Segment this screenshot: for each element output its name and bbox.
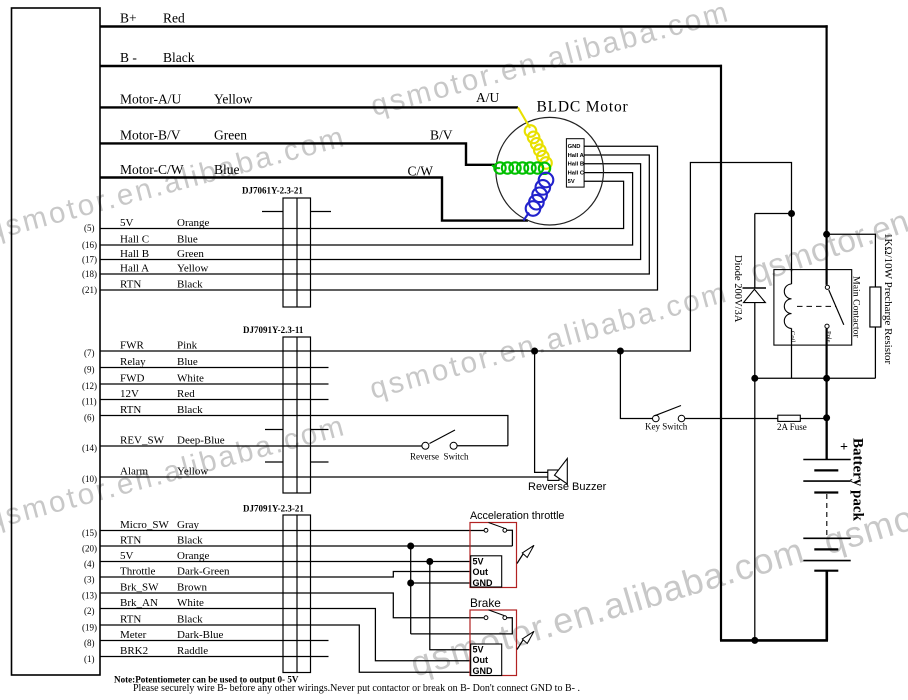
svg-text:DJ7061Y-2.3-21: DJ7061Y-2.3-21 <box>242 186 303 196</box>
svg-text:Brk_AN: Brk_AN <box>120 597 158 609</box>
group1 signal labels <box>120 217 209 291</box>
wire FWR <box>100 163 792 352</box>
wire RTN6 <box>100 416 508 446</box>
svg-text:Black: Black <box>177 535 203 547</box>
svg-text:5V: 5V <box>473 645 484 655</box>
group1 pin numbers <box>82 223 97 295</box>
svg-text:Hall A: Hall A <box>120 263 149 275</box>
svg-text:Black: Black <box>177 279 203 291</box>
connector DJ7061Y-2.3-21 <box>262 198 331 307</box>
wire Micro_SW <box>100 530 484 532</box>
junction contactor output node <box>823 375 830 382</box>
svg-text:(21): (21) <box>82 285 97 295</box>
svg-text:(9): (9) <box>84 365 95 375</box>
svg-text:Out: Out <box>473 655 489 665</box>
svg-text:GND: GND <box>473 666 494 676</box>
svg-text:Yellow: Yellow <box>177 263 208 275</box>
svg-text:Blue: Blue <box>177 356 198 368</box>
junction fuse to battery node <box>823 414 830 421</box>
key switch <box>653 415 685 422</box>
svg-text:Battery pack: Battery pack <box>850 438 866 522</box>
svg-text:Relay: Relay <box>120 356 146 368</box>
svg-text:5V: 5V <box>568 179 575 185</box>
svg-text:(4): (4) <box>84 559 95 569</box>
svg-text:Coil: Coil <box>789 331 796 342</box>
svg-text:Brk_SW: Brk_SW <box>120 582 159 594</box>
wire key switch to fuse <box>685 418 778 420</box>
svg-text:DJ7091Y-2.3-11: DJ7091Y-2.3-11 <box>243 325 304 335</box>
wire throttle switch return <box>507 530 513 546</box>
reverse switch <box>422 442 457 449</box>
svg-text:Black: Black <box>177 404 203 416</box>
watermark line 2 top-right <box>367 0 733 123</box>
svg-text:(5): (5) <box>84 223 95 233</box>
wire key switch drop <box>620 351 652 419</box>
svg-text:(18): (18) <box>82 269 97 279</box>
wire RTN19 <box>100 625 471 672</box>
svg-text:2A Fuse: 2A Fuse <box>777 422 807 432</box>
left column labels big <box>120 11 253 178</box>
svg-text:Diode 200V/3A: Diode 200V/3A <box>732 255 743 323</box>
watermark line 1 top <box>0 120 350 248</box>
svg-text:RTN: RTN <box>120 279 141 291</box>
junction B- bottom node <box>751 637 758 644</box>
svg-text:Hall B: Hall B <box>120 248 149 260</box>
svg-text:White: White <box>177 597 204 609</box>
svg-text:(2): (2) <box>84 606 95 616</box>
connector DJ7091Y-2.3-11 <box>265 337 329 493</box>
svg-text:Dark-Blue: Dark-Blue <box>177 629 224 641</box>
svg-text:Out: Out <box>473 567 489 577</box>
svg-text:Motor-C/W: Motor-C/W <box>120 162 184 177</box>
wire Relay stub <box>100 367 329 369</box>
brake lever arrow <box>517 639 524 650</box>
phase coil yellow <box>518 107 552 168</box>
svg-text:B/V: B/V <box>430 128 453 143</box>
wire diode top link <box>755 213 792 215</box>
svg-text:(3): (3) <box>84 575 95 585</box>
wire Throttle to Out <box>100 572 471 578</box>
wire precharge top <box>827 234 876 287</box>
svg-text:(11): (11) <box>82 397 97 407</box>
junction 5V drop <box>426 558 433 565</box>
watermark line 4 mid-right <box>366 276 732 406</box>
hall sensor pin labels <box>568 144 585 185</box>
svg-text:GND: GND <box>473 578 494 588</box>
wire 5V drop to brake <box>430 562 471 650</box>
controller box <box>12 8 101 675</box>
svg-text:Alarm: Alarm <box>120 466 149 478</box>
hall sensor box <box>566 139 584 187</box>
svg-text:Blue: Blue <box>177 234 198 246</box>
wire contactor out <box>825 329 827 460</box>
svg-text:GND: GND <box>568 144 581 150</box>
svg-text:B -: B - <box>120 50 137 65</box>
svg-text:Yellow: Yellow <box>214 92 253 107</box>
junction FWR-buzzer <box>531 348 538 355</box>
junction RTN20 drop <box>407 543 414 550</box>
wire node row 378 <box>755 377 876 379</box>
svg-text:Pole: Pole <box>825 331 832 343</box>
wire Motor-B/V <box>100 143 496 164</box>
svg-text:Key Switch: Key Switch <box>645 422 688 432</box>
svg-text:Hall C: Hall C <box>120 234 149 246</box>
wire 12V stub <box>100 399 329 401</box>
svg-text:Black: Black <box>177 614 203 626</box>
wire Brk_SW <box>100 593 484 618</box>
svg-text:DJ7091Y-2.3-21: DJ7091Y-2.3-21 <box>243 504 304 514</box>
group3 signal labels <box>120 519 230 657</box>
junction diode bottom node <box>751 375 758 382</box>
svg-text:(12): (12) <box>82 381 97 391</box>
wire B+ vertical to contactor <box>825 25 827 285</box>
group3 pin numbers <box>82 528 97 664</box>
wire throttle GND <box>411 582 471 584</box>
svg-text:FWD: FWD <box>120 373 145 385</box>
wire FWD stub <box>100 383 329 385</box>
svg-text:(6): (6) <box>84 413 95 423</box>
svg-text:12V: 12V <box>120 388 139 400</box>
svg-text:Yellow: Yellow <box>177 466 208 478</box>
svg-text:Micro_SW: Micro_SW <box>120 519 170 531</box>
svg-text:(17): (17) <box>82 255 97 265</box>
wire Hall B loop <box>100 164 641 260</box>
svg-text:BLDC Motor: BLDC Motor <box>537 99 629 116</box>
watermark line 6 bottom large <box>406 407 908 685</box>
wire reverse switch return <box>457 445 508 447</box>
svg-text:A/U: A/U <box>476 90 500 105</box>
phase coil green <box>492 162 550 174</box>
svg-text:Red: Red <box>163 11 185 26</box>
svg-text:(7): (7) <box>84 348 95 358</box>
svg-text:(19): (19) <box>82 623 97 633</box>
group2 signal labels <box>120 340 225 478</box>
svg-text:C/W: C/W <box>408 164 434 179</box>
wire 5V3 <box>100 561 471 563</box>
wire RTN20 drop <box>410 546 412 634</box>
wire buzzer drop from FWR <box>535 351 548 472</box>
svg-text:Hall B: Hall B <box>568 162 584 168</box>
svg-text:Reverse Buzzer: Reverse Buzzer <box>528 481 607 493</box>
svg-text:Hall C: Hall C <box>568 171 585 177</box>
svg-text:Meter: Meter <box>120 629 147 641</box>
svg-text:BRK2: BRK2 <box>120 645 148 657</box>
diode D1 <box>743 287 767 289</box>
svg-text:(20): (20) <box>82 544 97 554</box>
watermark line 3 mid-left <box>0 409 350 537</box>
svg-text:B+: B+ <box>120 11 137 26</box>
wire B+ <box>100 25 828 27</box>
wire precharge bottom <box>874 327 876 378</box>
svg-text:RTN: RTN <box>120 404 141 416</box>
svg-text:(1): (1) <box>84 654 95 664</box>
wire brake switch return <box>411 618 513 634</box>
svg-text:Brown: Brown <box>177 582 207 594</box>
svg-text:Please securely wire B- before: Please securely wire B- before any other… <box>133 683 580 694</box>
svg-text:Acceleration throttle: Acceleration throttle <box>470 510 564 522</box>
wire fuse to B+ <box>800 418 826 420</box>
wire Meter stub <box>100 640 329 642</box>
svg-text:(10): (10) <box>82 474 97 484</box>
svg-text:RTN: RTN <box>120 535 141 547</box>
junction throttle GND tap <box>407 580 414 587</box>
wire REV_SW <box>100 445 422 447</box>
svg-text:White: White <box>177 373 204 385</box>
wire Alarm to buzzer <box>100 476 548 478</box>
svg-text:Reverse Switch: Reverse Switch <box>410 452 469 462</box>
svg-text:Red: Red <box>177 388 195 400</box>
watermark line 5 right <box>745 140 908 290</box>
svg-text:FWR: FWR <box>120 340 145 352</box>
wire Motor-C/W <box>100 178 528 221</box>
svg-text:(16): (16) <box>82 240 97 250</box>
wire Brk_AN <box>100 609 471 661</box>
svg-text:Main Contactor: Main Contactor <box>851 276 862 338</box>
svg-text:5V: 5V <box>473 557 484 567</box>
wire coil bottom <box>791 328 793 378</box>
svg-text:Deep-Blue: Deep-Blue <box>177 435 225 447</box>
svg-text:(13): (13) <box>82 591 97 601</box>
BLDC motor circle <box>496 117 604 225</box>
svg-text:(8): (8) <box>84 638 95 648</box>
svg-text:Motor-B/V: Motor-B/V <box>120 128 181 143</box>
svg-text:(15): (15) <box>82 528 97 538</box>
svg-text:Motor-A/U: Motor-A/U <box>120 92 181 107</box>
throttle lever arrow <box>517 553 524 564</box>
svg-text:Raddle: Raddle <box>177 645 208 657</box>
wire Hall C loop <box>100 173 633 245</box>
svg-text:(14): (14) <box>82 443 97 453</box>
wire B- bottom to battery <box>720 639 828 642</box>
svg-text:RTN: RTN <box>120 614 141 626</box>
svg-text:Brake: Brake <box>470 596 501 610</box>
wire RTN hall GND loop <box>100 146 658 290</box>
junction B+ precharge tap <box>823 231 830 238</box>
svg-text:Green: Green <box>214 128 247 143</box>
phase coil blue <box>524 173 554 221</box>
wire 5V hall loop <box>100 181 624 228</box>
battery pack <box>803 418 850 641</box>
svg-text:1KΩ/10W Precharge Resistor: 1KΩ/10W Precharge Resistor <box>882 233 894 365</box>
svg-text:Pink: Pink <box>177 340 198 352</box>
svg-text:Dark-Green: Dark-Green <box>177 566 230 578</box>
wire B- <box>100 65 722 67</box>
svg-text:+: + <box>840 440 848 455</box>
svg-text:Blue: Blue <box>214 162 240 177</box>
svg-text:Orange: Orange <box>177 550 209 562</box>
junction coil top node <box>788 210 795 217</box>
svg-text:Gray: Gray <box>177 519 199 531</box>
svg-text:Black: Black <box>163 50 195 65</box>
svg-text:Hall A: Hall A <box>568 153 585 159</box>
reverse buzzer <box>548 459 568 485</box>
wire diode vertical <box>754 214 756 641</box>
wire BRK2 stub <box>100 656 329 658</box>
svg-text:Orange: Orange <box>177 217 209 229</box>
wire RTN20 <box>100 545 512 547</box>
fuse F1 2A <box>778 415 801 421</box>
svg-text:5V: 5V <box>120 550 134 562</box>
wire Hall A loop <box>100 155 649 274</box>
wire B- vertical <box>720 65 722 641</box>
svg-text:Throttle: Throttle <box>120 566 156 578</box>
precharge resistor R1 <box>870 287 881 327</box>
group2 pin numbers <box>82 348 97 484</box>
main contactor K1 <box>774 270 852 346</box>
junction FWR-keyswitch <box>617 348 624 355</box>
svg-text:5V: 5V <box>120 217 134 229</box>
svg-text:Green: Green <box>177 248 204 260</box>
connector DJ7091Y-2.3-21 <box>283 515 311 673</box>
wire Motor-A/U <box>100 106 518 108</box>
svg-text:REV_SW: REV_SW <box>120 435 165 447</box>
